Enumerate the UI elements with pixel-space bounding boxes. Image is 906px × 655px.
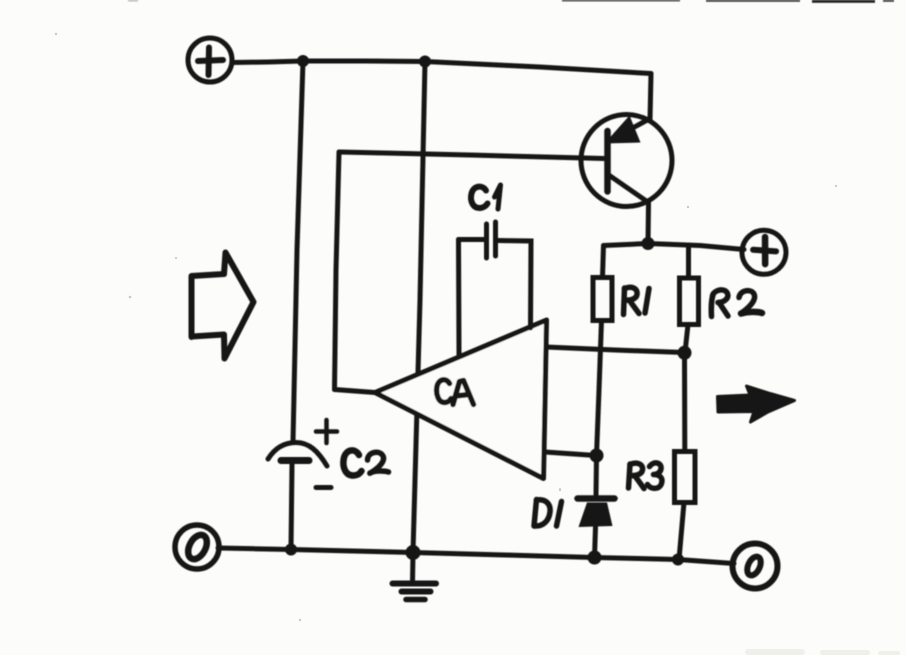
junction node: R2 / R3 / op-amp input [678,346,692,360]
junction node: D1 / 0V rail [588,551,602,565]
terminal +in [188,38,232,82]
junction node: V+ rail / left rail [297,55,309,67]
label R3 [629,463,662,489]
transistor Q1 base bar [604,131,611,192]
terminal 0 right [733,544,778,589]
paper speckles [55,33,837,621]
label C1 [471,185,501,209]
wire: collector down to node [646,203,652,244]
junction node: R3 / 0V rail [672,554,684,566]
output arrow [718,386,795,422]
label R1 [624,287,650,314]
wire: R1 top lead [603,246,604,278]
capacitor C1 [459,222,532,355]
junction node: R1 / D1 / op-amp input [590,449,604,463]
label D1 [534,500,562,527]
wire: C2 bottom lead [291,464,292,550]
transistor Q1 collector lead [610,176,649,203]
wire: D1 anode to 0V rail [595,527,596,558]
wire: R3 bottom lead [679,503,684,560]
scan artifacts top edge [128,0,894,3]
transistor Q1 body circle [581,115,672,207]
resistor R1 [593,278,612,321]
junction node: collector / R1 / R2 [642,237,655,250]
transistor Q1 emitter lead [609,119,650,142]
label C2 [343,450,388,475]
wire: op-amp lower input to D1 node [545,452,596,456]
resistor R3 [675,452,696,503]
wire: collector node horizontal to +out terminal [604,244,745,250]
transistor Q1 emitter arrow (PNP) [605,116,641,144]
wire top: second junction to transistor emitter drop [425,62,651,74]
label CA [437,380,474,405]
diode D1 body [579,503,613,528]
wire: R1 bottom lead down through D1 node [597,321,602,456]
capacitor C2 (electrolytic) [268,420,337,488]
wire: R2 top lead [686,247,691,278]
junction node: V+ rail / middle rail [419,56,431,68]
wire: feedback vertical up [335,152,340,390]
op-amp U1 (CA) [375,320,547,479]
wire: transistor base wire [339,152,604,159]
wire: op-amp output feedback left [335,390,376,393]
wire: R2/R3 node down to R3 [682,353,687,452]
label R2 [711,290,762,317]
terminal 0 left [175,525,219,569]
wire: D1 node to D1 cathode bar [594,456,600,496]
scan smudge bottom right [745,649,900,655]
wire: bottom 0V rail [218,548,734,564]
wire: R2 bottom lead [685,325,688,353]
input arrow [192,253,254,359]
wire: ground stub [410,553,416,584]
wire: middle vertical rail from top junction to ground rail [413,62,425,553]
resistor R2 [680,278,699,325]
terminal +out [740,229,787,276]
wire: op-amp upper input to R2/R3 node [546,347,684,353]
wire: left vertical rail from top junction to C2 [293,61,303,442]
wire top: +in terminal to first junction [232,61,303,63]
ground [393,584,437,600]
junction node: C2 / 0V rail [285,544,297,556]
diode D1 cathode bar [578,495,615,502]
junction node: ground / 0V rail [406,545,421,560]
wire: emitter vertical drop into transistor [650,74,651,121]
wire top: first to second junction [303,59,425,65]
